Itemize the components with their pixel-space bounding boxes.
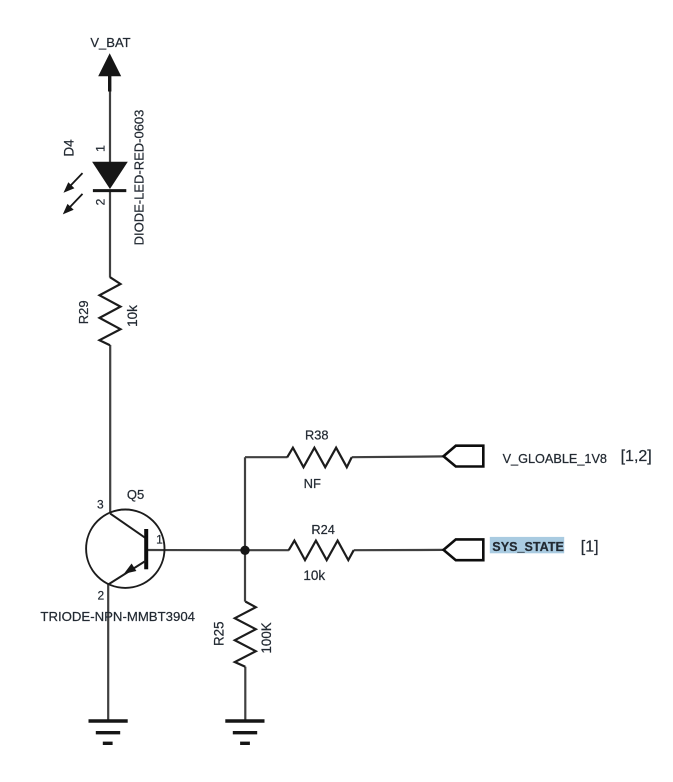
svg-text:1: 1	[94, 145, 108, 152]
svg-text:TRIODE-NPN-MMBT3904: TRIODE-NPN-MMBT3904	[40, 609, 195, 624]
svg-text:DIODE-LED-RED-0603: DIODE-LED-RED-0603	[132, 110, 147, 246]
svg-text:[1,2]: [1,2]	[621, 448, 652, 465]
svg-text:R29: R29	[76, 300, 91, 324]
svg-text:Q5: Q5	[127, 487, 144, 502]
svg-text:D4: D4	[62, 139, 77, 157]
svg-text:2: 2	[94, 198, 108, 205]
svg-text:V_GLOABLE_1V8: V_GLOABLE_1V8	[503, 452, 607, 466]
svg-text:SYS_STATE: SYS_STATE	[492, 540, 564, 554]
svg-text:3: 3	[97, 498, 104, 512]
svg-text:2: 2	[97, 589, 104, 603]
svg-text:10k: 10k	[125, 305, 140, 327]
svg-text:1: 1	[156, 533, 163, 547]
svg-text:[1]: [1]	[581, 538, 599, 555]
svg-text:R38: R38	[305, 428, 328, 443]
svg-text:V_BAT: V_BAT	[90, 35, 130, 50]
svg-text:NF: NF	[304, 476, 321, 491]
svg-text:R25: R25	[212, 621, 227, 646]
svg-text:R24: R24	[311, 522, 334, 537]
svg-text:10k: 10k	[303, 568, 325, 583]
svg-text:100K: 100K	[259, 622, 274, 653]
